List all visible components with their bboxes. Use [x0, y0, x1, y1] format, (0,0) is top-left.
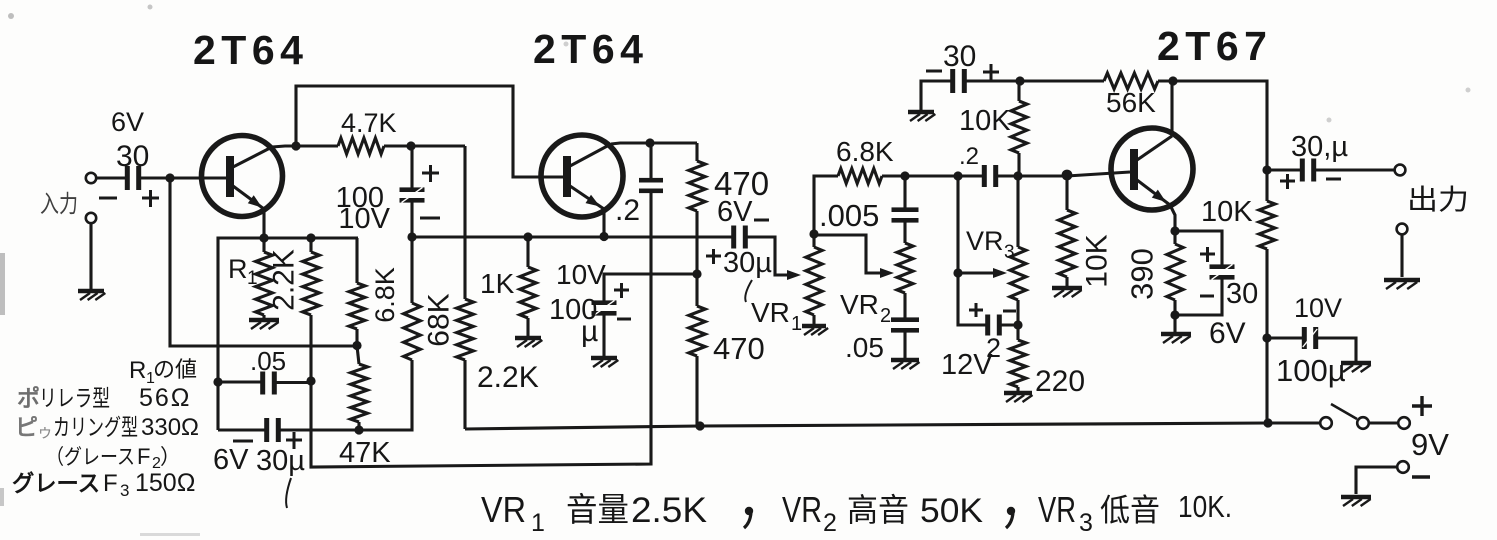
svg-text:2.2K: 2.2K [477, 361, 539, 394]
wire C1 to Q1 base [141, 173, 226, 182]
svg-text:2T67: 2T67 [1157, 23, 1272, 69]
svg-text:µ: µ [581, 315, 598, 348]
svg-text:30µ: 30µ [723, 247, 772, 279]
transistor Q3 2T67 [1111, 128, 1193, 210]
svg-text:1: 1 [247, 268, 258, 289]
capacitor .005 [819, 176, 919, 243]
resistor 10K top [959, 81, 1027, 176]
svg-text:.05: .05 [250, 346, 286, 376]
svg-text:330Ω: 330Ω [141, 414, 199, 441]
svg-text:2.5K: 2.5K [631, 491, 707, 530]
svg-text:10K: 10K [959, 105, 1011, 137]
bottom supply rail [465, 421, 1320, 430]
svg-text:ピ: ピ [15, 414, 38, 440]
transistor Q2 2T64 [541, 135, 623, 217]
potentiometer VR3 [966, 176, 1026, 330]
svg-text:VR: VR [966, 226, 1004, 256]
label 68K rotated [423, 293, 456, 346]
svg-text:F: F [137, 444, 150, 469]
ground 100uF output [1341, 363, 1371, 372]
wire Q1 emitter [262, 210, 265, 238]
svg-text:10V: 10V [338, 203, 390, 235]
top supply rail [966, 76, 1272, 174]
resistor 56K [1104, 73, 1158, 118]
label 6.8K rotated [370, 267, 400, 323]
output terminal (hot) [1395, 165, 1469, 215]
ground input [78, 291, 105, 300]
svg-text:VR: VR [481, 489, 526, 530]
switch and 9V battery terminals [1320, 396, 1449, 494]
svg-text:音量: 音量 [566, 491, 629, 528]
capacitor 30uF Q3 emitter bypass [1175, 231, 1258, 350]
capacitor C5 coupling 30uF 6V [706, 196, 801, 302]
resistor 1K [480, 237, 536, 336]
svg-text:50K: 50K [920, 492, 983, 530]
label 2T64 first [193, 27, 308, 73]
svg-text:47K: 47K [339, 437, 391, 469]
resistor 390 + emitter network [1167, 205, 1183, 332]
resistor 6.8K horizontal [814, 136, 905, 234]
svg-text:6V: 6V [213, 444, 249, 476]
svg-text:30µ: 30µ [256, 445, 305, 477]
svg-text:入力: 入力 [40, 191, 78, 218]
svg-text:1: 1 [531, 509, 545, 537]
ground output [1384, 280, 1420, 289]
capacitor .2 feedback with riser [311, 143, 663, 467]
svg-text:12V: 12V [941, 349, 993, 381]
svg-text:10K.: 10K. [1178, 489, 1232, 524]
resistor 2.2K second stage with feedback box [457, 146, 539, 429]
resistor R2 (311) [303, 238, 320, 386]
svg-text:グレース: グレース [12, 470, 100, 496]
svg-text:150Ω: 150Ω [135, 469, 195, 497]
ground 30uF top [908, 112, 935, 121]
input terminal (hot) [86, 173, 125, 183]
resistor 470 bottom [689, 274, 765, 426]
capacitor .2 second [959, 143, 998, 187]
svg-text:6V: 6V [717, 196, 753, 228]
svg-text:30,µ: 30,µ [1291, 131, 1348, 163]
svg-text:リレラ型: リレラ型 [39, 385, 110, 411]
svg-text:F: F [103, 470, 118, 497]
svg-text:出力: 出力 [1407, 184, 1469, 215]
capacitor C3 30uF 6V (bottom) [213, 360, 412, 508]
resistor 10K mid [1059, 176, 1076, 286]
svg-text:VR: VR [1038, 489, 1076, 530]
svg-text:（グレース: （グレース [46, 446, 135, 469]
capacitor 2uF 12V [941, 303, 1018, 381]
svg-text:6V: 6V [111, 107, 144, 137]
ground battery [1341, 497, 1371, 506]
svg-text:VR: VR [782, 489, 822, 530]
svg-text:2.2K: 2.2K [268, 249, 301, 311]
rail emitter/AC line (right of cap C2) [407, 232, 732, 242]
svg-text:.2: .2 [615, 194, 640, 227]
svg-text:30: 30 [943, 40, 976, 73]
svg-text:ポ: ポ [17, 385, 40, 411]
svg-text:4.7K: 4.7K [341, 108, 397, 138]
svg-text:R: R [228, 254, 248, 284]
svg-text:低音: 低音 [1100, 493, 1160, 528]
label 2T64 second [533, 26, 648, 72]
transistor Q1 2T64 [202, 136, 283, 217]
svg-text:R: R [129, 357, 146, 384]
label 2T67 [1157, 23, 1272, 69]
svg-text:3: 3 [1004, 242, 1015, 263]
input terminal (ground side) [86, 213, 96, 289]
svg-text:220: 220 [1035, 365, 1085, 398]
potentiometer VR1 [751, 229, 822, 335]
svg-text:30: 30 [116, 140, 149, 173]
capacitor C2 100uF 10V [336, 146, 440, 237]
svg-text:390: 390 [1125, 248, 1160, 300]
svg-text:30: 30 [1226, 278, 1258, 310]
svg-text:2T64: 2T64 [533, 26, 648, 72]
ground VR1 [802, 326, 828, 335]
svg-text:6.8K: 6.8K [836, 136, 894, 167]
potentiometer VR2 [840, 243, 913, 327]
capacitor .05 [218, 346, 311, 395]
svg-text:3: 3 [1079, 509, 1093, 537]
ground R1 [249, 320, 279, 329]
wire Q3 collector [1170, 81, 1173, 136]
svg-text:68K: 68K [423, 293, 456, 346]
label 2.2K (rotated) [268, 249, 301, 311]
svg-text:2: 2 [823, 509, 837, 537]
svg-text:6V: 6V [1209, 317, 1246, 350]
capacitor 30uF output [1267, 131, 1394, 189]
svg-text:VR: VR [751, 297, 790, 328]
notes text block R1 values [12, 357, 199, 500]
wire Q1 base bias feed [170, 178, 357, 346]
ground VR2 chain [891, 360, 920, 369]
wire Q2 emitter [602, 209, 605, 236]
svg-text:.2: .2 [959, 143, 979, 170]
node 入力 label [40, 191, 78, 218]
capacitor 100uF 10V output [1267, 293, 1356, 388]
output terminal (ground side) [1397, 224, 1408, 277]
wire Q1 collector + coupling rail to Q2 base [272, 86, 563, 177]
svg-text:10V: 10V [556, 259, 606, 290]
ground 220 [1004, 393, 1033, 402]
node box left (emitter bias network) [213, 233, 358, 430]
svg-text:の値: の値 [153, 357, 197, 382]
svg-text:56Ω: 56Ω [139, 384, 192, 412]
label 10K rotated [1081, 234, 1114, 287]
tone network top line [900, 170, 1130, 181]
label 390 rotated [1125, 248, 1160, 300]
svg-text:）: ） [160, 446, 181, 469]
svg-text:10V: 10V [1294, 293, 1342, 323]
svg-text:9V: 9V [1411, 427, 1449, 462]
resistor 470 top [689, 143, 769, 279]
ground 10K mid [1052, 288, 1082, 297]
resistor 6.8K (vertical) [349, 238, 365, 350]
resistor 10K output [1201, 170, 1275, 428]
ground 1K [515, 338, 542, 347]
svg-text:470: 470 [713, 331, 765, 366]
svg-text:100µ: 100µ [1276, 353, 1346, 388]
svg-text:.005: .005 [819, 198, 879, 233]
ground 100uF Q2 [591, 358, 618, 367]
resistor R1 2.2K [228, 238, 272, 318]
svg-text:10K: 10K [1201, 196, 1253, 228]
capacitor .05 below VR2 [845, 293, 919, 363]
svg-text:ゥ: ゥ [37, 424, 53, 441]
wire Q2 collector [611, 138, 697, 147]
capacitor 30uF top with ground [921, 40, 999, 110]
resistor 4.7K [338, 108, 397, 154]
wire VR3 wiper branch [953, 176, 1007, 325]
wire VR1 node to VR2 wiper [814, 235, 894, 278]
svg-text:高音: 高音 [847, 492, 909, 528]
capacitor C1 input 30uF 6V [99, 107, 159, 207]
svg-text:6.8K: 6.8K [370, 267, 400, 323]
resistor 47K [339, 346, 391, 469]
wire 4.7K to corner riser [384, 141, 465, 150]
caption VR values [481, 489, 1232, 537]
svg-text:3: 3 [120, 481, 129, 500]
svg-text:56K: 56K [1106, 87, 1156, 118]
svg-text:1K: 1K [480, 268, 515, 299]
svg-text:10K: 10K [1081, 234, 1114, 287]
capacitor 100uF 10V emitter bypass Q2 [549, 259, 697, 356]
resistor 68K [404, 237, 421, 360]
svg-text:1: 1 [791, 313, 802, 335]
svg-text:2T64: 2T64 [193, 27, 308, 73]
ground Q3 emitter [1161, 334, 1191, 343]
resistor 220 [1010, 325, 1085, 398]
svg-text:2: 2 [880, 305, 891, 327]
svg-text:VR: VR [840, 289, 879, 320]
svg-text:.05: .05 [845, 332, 884, 363]
svg-text:カリング型: カリング型 [53, 414, 138, 440]
